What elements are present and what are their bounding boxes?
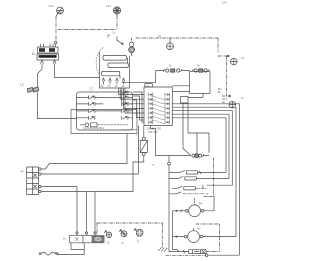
svg-text:301 303: 301 303	[148, 130, 158, 134]
svg-text:L1: L1	[90, 87, 94, 91]
svg-text:24-2: 24-2	[222, 1, 228, 5]
svg-text:LF: LF	[146, 84, 149, 88]
svg-text:302 304 305: 302 304 305	[147, 127, 162, 131]
svg-text:23-1: 23-1	[49, 4, 55, 8]
svg-text:w: w	[153, 164, 155, 167]
svg-text:1b: 1b	[32, 52, 36, 56]
svg-text:24-1: 24-1	[106, 4, 112, 8]
svg-text:L2: L2	[20, 83, 24, 87]
